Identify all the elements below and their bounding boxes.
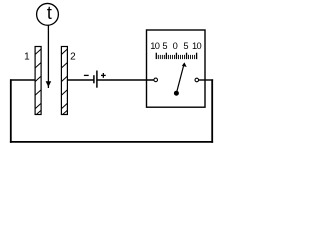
wire right terminal out: [199, 79, 214, 81]
wire battery to meter: [97, 79, 154, 81]
svg-text:0: 0: [173, 41, 178, 51]
left terminal: [154, 78, 158, 82]
svg-text:t: t: [47, 3, 52, 23]
svg-text:5: 5: [183, 41, 188, 51]
needle pivot: [174, 91, 179, 96]
wire plate1 to left: [10, 79, 35, 81]
meter needle: [176, 62, 186, 93]
label plus: [101, 73, 106, 78]
svg-text:10: 10: [150, 41, 159, 51]
svg-text:5: 5: [162, 41, 167, 51]
svg-text:1: 1: [24, 52, 30, 63]
wire left vertical: [10, 79, 12, 143]
wire bottom: [10, 141, 213, 143]
thermometer t: [37, 3, 59, 25]
plate 2: [61, 47, 67, 115]
battery B1: [94, 71, 97, 88]
thermometer stem arrow: [46, 25, 52, 88]
svg-text:10: 10: [192, 41, 201, 51]
label minus: [84, 74, 89, 76]
scale ticks: [156, 53, 196, 59]
svg-text:2: 2: [70, 52, 76, 63]
galvanometer box: [147, 30, 206, 107]
wire right vertical: [211, 79, 213, 143]
wire plate2 to battery: [67, 79, 94, 81]
plate 1: [35, 47, 41, 115]
scale labels 10 5 0 5 10: [150, 41, 201, 51]
right terminal: [195, 78, 199, 82]
